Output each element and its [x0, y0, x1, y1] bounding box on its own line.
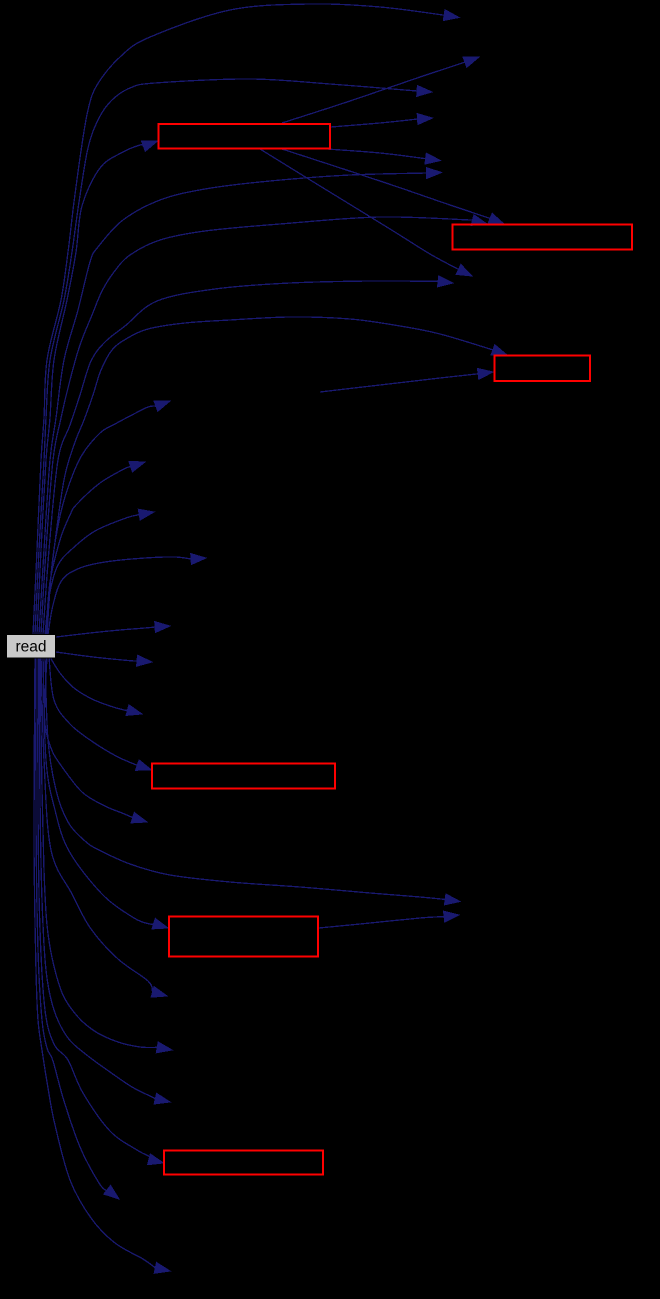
edge read->a20 — [39, 657, 170, 1104]
edge read->a14 — [56, 652, 152, 666]
node box4 (red highlighted) — [152, 764, 335, 789]
edge box1->a4 — [331, 114, 433, 127]
edge read->a3 — [35, 79, 432, 634]
edge read->a19 — [40, 657, 172, 1053]
edge read->a22 — [34, 657, 170, 1273]
edge read->a6 — [39, 168, 442, 635]
edge read->a18 — [41, 657, 167, 997]
edge box1->box2 — [282, 149, 504, 224]
edge read->a9 — [47, 401, 170, 634]
edge read->a12 — [48, 554, 206, 634]
edge read->a16 — [44, 657, 147, 823]
edge read->box6 — [38, 657, 164, 1165]
node box6 (red highlighted) — [164, 1151, 323, 1175]
edge n9->box3 — [320, 368, 493, 392]
node box5 (red highlighted) — [169, 917, 318, 957]
edge box1->a2 — [282, 57, 479, 123]
edge read->box5 — [43, 657, 168, 929]
edge read->a17 — [45, 657, 460, 905]
edge box1->a5 — [327, 149, 441, 164]
edge read->a1 — [33, 4, 459, 634]
edge read->a8 — [43, 276, 453, 634]
node read (current function, grey) — [7, 635, 56, 659]
edge box1->a7 — [260, 149, 472, 276]
edge read->box2 — [41, 215, 487, 634]
node box2 (red highlighted) — [453, 225, 633, 250]
edge box5->n17 — [319, 911, 459, 928]
edge read->a15 — [50, 657, 142, 715]
edge read->box4 — [49, 657, 152, 770]
svg-text:read: read — [15, 639, 46, 656]
edge read->box1 — [37, 141, 158, 634]
edge read->a10 — [46, 461, 145, 634]
node box1 (red highlighted) — [159, 124, 331, 149]
edge read->a11 — [45, 509, 154, 634]
edge read->a13 — [56, 622, 170, 637]
edge read->box3 — [45, 317, 507, 634]
edge read->a21 — [36, 657, 119, 1199]
node box3 (red highlighted) — [495, 356, 591, 382]
